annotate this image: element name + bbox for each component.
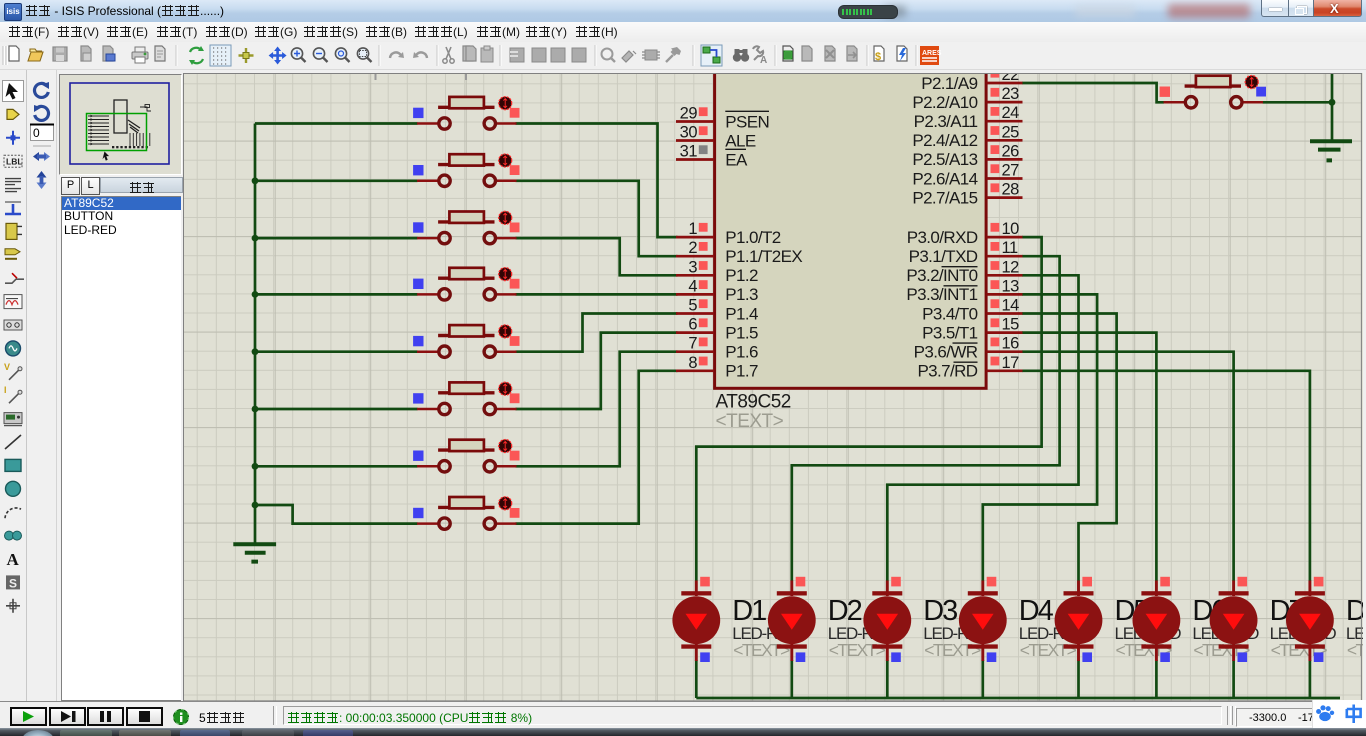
svg-text:ARES: ARES <box>922 50 942 57</box>
svg-text:27: 27 <box>1002 162 1020 180</box>
svg-text:P3.7/RD: P3.7/RD <box>917 362 977 381</box>
svg-text:EA: EA <box>725 150 748 169</box>
svg-text:24: 24 <box>1002 104 1020 122</box>
svg-text:$: $ <box>875 51 881 63</box>
svg-text:7: 7 <box>688 335 697 353</box>
svg-text:P3.1/TXD: P3.1/TXD <box>909 247 978 266</box>
svg-text:P1.7: P1.7 <box>725 362 758 381</box>
svg-text:16: 16 <box>1002 335 1020 353</box>
svg-text:1: 1 <box>688 220 697 238</box>
svg-text:17: 17 <box>1002 354 1020 372</box>
svg-text:P2.1/A9: P2.1/A9 <box>921 74 977 93</box>
svg-text:P1.3: P1.3 <box>725 285 758 304</box>
svg-text:22: 22 <box>1002 73 1020 84</box>
svg-text:P1.1/T2EX: P1.1/T2EX <box>725 247 802 266</box>
svg-text:I: I <box>4 385 7 395</box>
svg-text:LBL: LBL <box>6 157 23 167</box>
svg-text:15: 15 <box>1002 316 1020 334</box>
svg-text:8: 8 <box>688 354 697 372</box>
svg-text:P3.5/T1: P3.5/T1 <box>922 323 977 342</box>
svg-text:ALE: ALE <box>725 131 756 150</box>
svg-text:P3.6/WR: P3.6/WR <box>914 343 978 362</box>
svg-text:<TEXT>: <TEXT> <box>924 640 981 660</box>
svg-text:<TEXT>: <TEXT> <box>1347 640 1363 660</box>
svg-text:AT89C52: AT89C52 <box>716 392 791 413</box>
svg-text:A: A <box>760 55 767 66</box>
svg-text:<TEXT>: <TEXT> <box>1020 640 1077 660</box>
svg-text:A: A <box>7 550 20 569</box>
svg-text:P1.0/T2: P1.0/T2 <box>725 228 780 247</box>
svg-text:P3.3/INT1: P3.3/INT1 <box>906 285 977 304</box>
svg-text:6: 6 <box>688 316 697 334</box>
svg-text:P1.4: P1.4 <box>725 304 758 323</box>
svg-text:PSEN: PSEN <box>725 112 769 131</box>
svg-text:P1.6: P1.6 <box>725 343 758 362</box>
svg-text:29: 29 <box>680 105 698 123</box>
svg-text:P2.2/A10: P2.2/A10 <box>912 93 977 112</box>
svg-text:P2.4/A12: P2.4/A12 <box>912 131 977 150</box>
svg-text:25: 25 <box>1002 123 1020 141</box>
svg-text:<TEXT>: <TEXT> <box>829 640 886 660</box>
svg-text:10: 10 <box>1002 220 1020 238</box>
svg-text:P3.0/RXD: P3.0/RXD <box>907 228 978 247</box>
svg-text:D4: D4 <box>1019 595 1054 627</box>
svg-text:13: 13 <box>1002 277 1020 295</box>
svg-text:P2.7/A15: P2.7/A15 <box>912 188 977 207</box>
svg-text:14: 14 <box>1002 297 1020 315</box>
svg-text:P1.2: P1.2 <box>725 266 758 285</box>
svg-text:3: 3 <box>688 258 697 276</box>
svg-text:23: 23 <box>1002 85 1020 103</box>
svg-text:31: 31 <box>680 143 698 161</box>
svg-text:D8: D8 <box>1346 595 1363 627</box>
svg-text:P2.6/A14: P2.6/A14 <box>912 169 977 188</box>
svg-text:4: 4 <box>688 277 697 295</box>
svg-text:S: S <box>9 576 17 590</box>
svg-text:11: 11 <box>1002 239 1018 257</box>
svg-text:30: 30 <box>680 124 698 142</box>
svg-text:P2.5/A13: P2.5/A13 <box>912 150 977 169</box>
svg-text:0: 0 <box>33 126 40 140</box>
svg-text:D2: D2 <box>828 595 863 627</box>
svg-text:<TEXT>: <TEXT> <box>716 411 784 432</box>
svg-text:5: 5 <box>688 297 697 315</box>
svg-text:P3.2/INT0: P3.2/INT0 <box>906 266 977 285</box>
svg-text:12: 12 <box>1002 258 1020 276</box>
svg-text:<TEXT>: <TEXT> <box>733 640 790 660</box>
svg-text:26: 26 <box>1002 142 1020 160</box>
svg-text:P3.4/T0: P3.4/T0 <box>922 304 977 323</box>
svg-text:D3: D3 <box>923 595 958 627</box>
svg-text:P1.5: P1.5 <box>725 323 758 342</box>
svg-text:P2.3/A11: P2.3/A11 <box>914 112 978 131</box>
svg-text:2: 2 <box>688 239 697 257</box>
svg-text:28: 28 <box>1002 181 1020 199</box>
svg-text:D1: D1 <box>732 595 767 627</box>
svg-text:V: V <box>4 362 10 372</box>
